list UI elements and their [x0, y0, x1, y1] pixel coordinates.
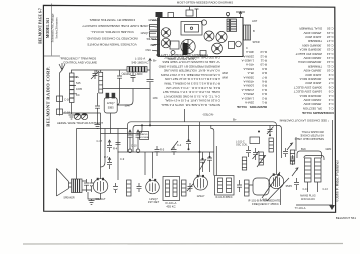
svg-text:C-10: C-10: [131, 144, 137, 148]
output transformer coil B: [315, 158, 322, 182]
svg-text:BELMONT 561: BELMONT 561: [336, 216, 357, 220]
svg-text:OSC: OSC: [145, 48, 151, 52]
antenna terminal stem: [186, 10, 193, 16]
rectifier tube V4: [269, 174, 283, 188]
B+ bus line H1: [128, 122, 277, 175]
top bus wire: [72, 70, 128, 73]
svg-text:C: C: [246, 46, 248, 50]
svg-text:C-16: C-16: [64, 98, 70, 102]
svg-text:SPKR: SPKR: [253, 40, 260, 44]
junction dot mid: [258, 131, 260, 133]
coil bottom leads: [308, 182, 318, 192]
svg-text:MOST-OFTEN-NEEDED RADIO DIAGRA: MOST-OFTEN-NEEDED RADIO DIAGRAMS: [177, 0, 233, 4]
chassis labels right column: [246, 19, 260, 50]
capacitor C-3: [131, 70, 136, 82]
vertical wire x105: [101, 129, 106, 168]
ground under speaker caps: [89, 199, 95, 205]
AC line wire at right border: [332, 120, 334, 205]
capacitor right of IF2: [237, 180, 242, 192]
speaker hatched block on right edge: [244, 25, 251, 40]
condenser list (rotated 180): [279, 27, 334, 123]
tube V2 cathode to ground bus: [88, 192, 101, 199]
svg-text:545: 545: [76, 81, 81, 85]
chassis ground bottom right: [329, 205, 335, 210]
capacitor near rectifier top: [283, 148, 288, 157]
svg-text:CONDENSERSVALUE: CONDENSERSVALUE: [302, 111, 334, 115]
model column separator: [50, 4, 52, 56]
bus junction dot 2: [199, 151, 201, 153]
tube socket V2: [161, 38, 171, 48]
svg-text:450 OHMS TOTAL: 450 OHMS TOTAL: [301, 130, 324, 134]
capacitor C-2 on bus: [117, 70, 122, 105]
AVC capacitor pair left: [200, 152, 207, 172]
svg-text:FORMED BY TWISTING WIRES.: FORMED BY TWISTING WIRES.: [89, 18, 135, 22]
resistor stack A: [269, 138, 273, 152]
vertical wire x118: [117, 129, 119, 152]
chassis left edge thick bar: [157, 18, 160, 57]
svg-text:BLK: BLK: [301, 147, 306, 151]
capacitor mid b with arrow: [253, 148, 260, 160]
svg-text:C-4: C-4: [177, 143, 182, 147]
capacitor with arrow upper: [267, 125, 274, 135]
vertical wire x118 lower: [117, 152, 119, 181]
chassis outline: [159, 18, 244, 57]
svg-text:AS FILTER CHOKE: AS FILTER CHOKE: [300, 133, 324, 137]
capacitor R-5: [155, 146, 160, 156]
svg-text:ANT: ANT: [252, 19, 258, 23]
IF transformer 2 box: [215, 176, 235, 196]
svg-text:1ST DET: 1ST DET: [148, 200, 160, 204]
small rect bottom: [200, 51, 206, 57]
loop antenna coil L1: [70, 73, 75, 103]
svg-text:RATED: RATED: [140, 133, 148, 136]
capacitor on x118: [116, 143, 121, 145]
chassis labels left column: [140, 18, 156, 52]
interstage capacitor: [113, 183, 118, 193]
AVC capacitor pair right: [207, 152, 212, 172]
tuning capacitor right of coil: [187, 183, 194, 192]
trimmer hole small: [201, 20, 206, 25]
small box right side: [229, 42, 235, 49]
pilot contact b: [136, 149, 140, 153]
svg-text:MODEL 561: MODEL 561: [46, 18, 50, 38]
svg-text:TY-101-A: TY-101-A: [295, 206, 306, 210]
voice coil transformer: [72, 179, 83, 193]
svg-text:VOLTAGES TAKEN FROM POINTS: VOLTAGES TAKEN FROM POINTS: [87, 43, 136, 47]
resistor list (rotated 180): [222, 50, 267, 109]
leader lines left labels: [149, 20, 160, 51]
svg-text:R-4: R-4: [113, 147, 118, 151]
svg-text:C-2: C-2: [122, 72, 127, 76]
speaker cone: [57, 169, 69, 197]
svg-text:GRN: GRN: [326, 147, 332, 151]
small box with stem left: [168, 13, 174, 18]
svg-text:VOLUME CONTROL ON FULL.: VOLUME CONTROL ON FULL.: [90, 30, 134, 34]
wire tap box lower: [57, 109, 63, 115]
svg-text:115V.AC-DC: 115V.AC-DC: [301, 198, 315, 201]
wire bus to transformer top: [295, 137, 297, 151]
svg-text:C-20DUAL TRIMMER: C-20DUAL TRIMMER: [298, 27, 333, 31]
small relay rect: [250, 137, 260, 144]
arrow to coil: [292, 168, 298, 176]
svg-text:C-B.S20 OVAL NARROW. P.I.A. BL: C-B.S20 OVAL NARROW. P.I.A. BLT OSC: [163, 56, 220, 60]
notes paragraph (rotated 180): [158, 56, 220, 107]
svg-text:BELMONT PAGE 6-7: BELMONT PAGE 6-7: [39, 8, 43, 44]
output tube V2: [93, 179, 108, 194]
tube socket V4: [204, 31, 214, 41]
svg-text:R-5: R-5: [160, 148, 165, 152]
svg-text:35Z5: 35Z5: [150, 43, 156, 47]
grid wire into tube: [96, 70, 98, 73]
svg-text:B: B: [253, 29, 255, 33]
variable capacitor C-1: [91, 70, 99, 79]
svg-text:50L6GT: 50L6GT: [147, 37, 157, 41]
AVC bus line H2: [133, 125, 282, 158]
IF transformer 1 box: [163, 177, 180, 201]
svg-text:* SEE CHASSIS LAYOUT DIAGRAM: * SEE CHASSIS LAYOUT DIAGRAM: [279, 119, 329, 123]
svg-text:1-MFD: 1-MFD: [135, 73, 143, 76]
osc grid capacitor: [95, 93, 100, 108]
output transformer coil A: [305, 158, 312, 182]
capacitor C-8: [128, 130, 146, 175]
svg-text:©John F. Rider, Publisher: ©John F. Rider, Publisher: [336, 159, 340, 201]
svg-text:12SQ7: 12SQ7: [107, 102, 115, 105]
lower band top wire: [101, 125, 143, 133]
capacitor before det tube: [137, 183, 142, 192]
trimmer stem mid: [195, 9, 199, 18]
tube V2 grid wire: [63, 113, 101, 179]
speaker field note (rotated 180): [295, 130, 324, 141]
svg-text:FREQUENCY 455KC: FREQUENCY 455KC: [252, 202, 279, 206]
trunk wire vertical: [185, 109, 200, 176]
IF amplifier tube V3b: [194, 176, 208, 190]
svg-text:12SQ7: 12SQ7: [140, 31, 149, 35]
antenna lead wire: [60, 70, 63, 116]
svg-text:R-7: R-7: [104, 155, 109, 159]
label box left lower: [150, 32, 158, 38]
heater riser wire: [280, 189, 282, 205]
electrolytic capacitor: [82, 179, 94, 192]
svg-text:ZL: ZL: [76, 75, 80, 79]
resistor stack B: [259, 152, 263, 165]
small box rated voltage: [140, 132, 149, 140]
chassis layout diagram: [149, 7, 251, 57]
IF can top view: [181, 22, 202, 36]
L1 lead down: [71, 103, 73, 115]
svg-text:B+: B+: [233, 117, 237, 121]
spare coil right of IF2: [245, 180, 250, 196]
circlet marker: [226, 12, 229, 15]
svg-text:C-18: C-18: [64, 111, 70, 115]
svg-text:INDICATED TO CHASSIS GROUND.: INDICATED TO CHASSIS GROUND.: [86, 36, 138, 40]
resistor R-12: [242, 157, 246, 170]
riser top bend: [211, 125, 214, 131]
trimmer hole small right: [236, 41, 242, 47]
scan page bottom edge line: [23, 243, 343, 246]
svg-text:1605: 1605: [76, 87, 82, 91]
cap left of transformer: [290, 155, 295, 165]
svg-text:10%: 10%: [125, 104, 131, 108]
IF2 riser double wire: [214, 131, 217, 176]
bottom return bus: [296, 204, 333, 206]
converter tube can V1: [104, 98, 117, 114]
svg-text:455 KC: 455 KC: [166, 204, 175, 208]
voltage note paragraph (rotated 180): [82, 18, 142, 47]
svg-text:12SK7: 12SK7: [141, 24, 149, 28]
long mid horizontal wire: [118, 151, 214, 153]
leader line 2: [267, 178, 289, 201]
resistor R-13: [290, 150, 294, 164]
ant terminal dark block: [156, 12, 163, 17]
pilot contact a: [128, 149, 132, 153]
svg-text:KC: KC: [76, 93, 80, 97]
tube cathode lead: [110, 113, 112, 134]
tube socket V5: [216, 31, 227, 42]
ground under grid cap: [95, 108, 101, 128]
B+ arrow symbol: [149, 59, 152, 66]
dial lamp 2: [81, 113, 87, 119]
bus junction dot 3: [141, 124, 143, 126]
svg-text:-NOTES-: -NOTES-: [202, 113, 214, 117]
tube socket V3 large: [181, 39, 195, 53]
svg-text:12SA7: 12SA7: [148, 18, 156, 22]
svg-text:C-17: C-17: [97, 139, 103, 143]
ballast can: [253, 178, 269, 195]
svg-text:A 3 AMP FUSE UNMEASURED CAPACI: A 3 AMP FUSE UNMEASURED CAPACITY: [82, 24, 142, 28]
top bus wire right part: [147, 65, 150, 125]
svg-text:B+: B+: [153, 59, 157, 63]
coupling capacitor C-7: [107, 140, 112, 169]
svg-text:OSC COIL: OSC COIL: [236, 144, 248, 147]
ground under L1: [69, 115, 75, 119]
junction dot heater: [269, 134, 271, 136]
leader line 1: [262, 172, 280, 198]
svg-text:BELMONT RADIO CORP.: BELMONT RADIO CORP.: [46, 66, 51, 126]
capacitor C-4 pair: [171, 141, 178, 155]
arrow marker right: [236, 12, 245, 18]
antenna symbol: [59, 63, 65, 70]
bus junction dot 1: [149, 124, 151, 126]
output capacitor: [82, 179, 89, 192]
L1 tap labels: [64, 75, 82, 115]
svg-text:10%: 10%: [153, 96, 159, 100]
dial lamp 1: [74, 113, 80, 119]
oscillator coil L2: [99, 72, 103, 93]
tube socket V6: [212, 43, 223, 54]
svg-text:C-13: C-13: [303, 188, 309, 191]
small box left of speaker block: [170, 41, 179, 49]
svg-text:50L6GT: 50L6GT: [95, 197, 105, 201]
antenna coil secondary: [182, 180, 187, 196]
svg-text:50B5: 50B5: [108, 107, 114, 110]
label box left upper: [150, 25, 158, 31]
cap lower left: [294, 178, 299, 190]
capacitor mid a: [246, 146, 251, 157]
wire tap box upper: [57, 96, 63, 102]
border frame: [43, 5, 335, 212]
svg-text:AERIAL WAVE TRAP ADJUSTMENT: AERIAL WAVE TRAP ADJUSTMENT: [57, 121, 103, 125]
svg-text:CONTROL AND VOLUME: CONTROL AND VOLUME: [63, 60, 97, 64]
grid resistor R-6: [127, 180, 132, 196]
svg-text:545-1605 KC: 545-1605 KC: [131, 60, 148, 64]
capacitor on B+ riser: [103, 80, 154, 106]
tube socket V1: [161, 28, 171, 38]
svg-text:RESISTORSVALUE: RESISTORSVALUE: [237, 105, 267, 109]
power transformer top view: [227, 19, 237, 32]
svg-text:C-13: C-13: [323, 188, 329, 191]
drop wire with cap C-11: [186, 125, 191, 149]
svg-text:IF-101-B 455KC: IF-101-B 455KC: [215, 196, 233, 199]
B+ bus left span: [77, 128, 128, 130]
tube V3 grid lead: [152, 152, 154, 178]
field coil feed wire: [76, 129, 78, 180]
svg-text:C-9: C-9: [120, 157, 125, 161]
svg-text:12SA7: 12SA7: [197, 194, 205, 198]
arrows near rectifier: [287, 143, 293, 150]
trimmer hole small left bottom: [171, 51, 175, 55]
detector tube V3: [146, 180, 160, 194]
svg-text:SPEAKER: SPEAKER: [63, 197, 75, 200]
output transformer top wires: [297, 151, 324, 160]
svg-text:VOLTAGE: VOLTAGE: [139, 136, 150, 139]
speaker block solid black: [183, 43, 188, 55]
svg-text:SPEAKER FIELD USED: SPEAKER FIELD USED: [295, 137, 324, 141]
svg-text:35Z5: 35Z5: [286, 184, 293, 188]
wave trap coil inline: [127, 67, 147, 73]
margin separator tick: [44, 55, 60, 57]
